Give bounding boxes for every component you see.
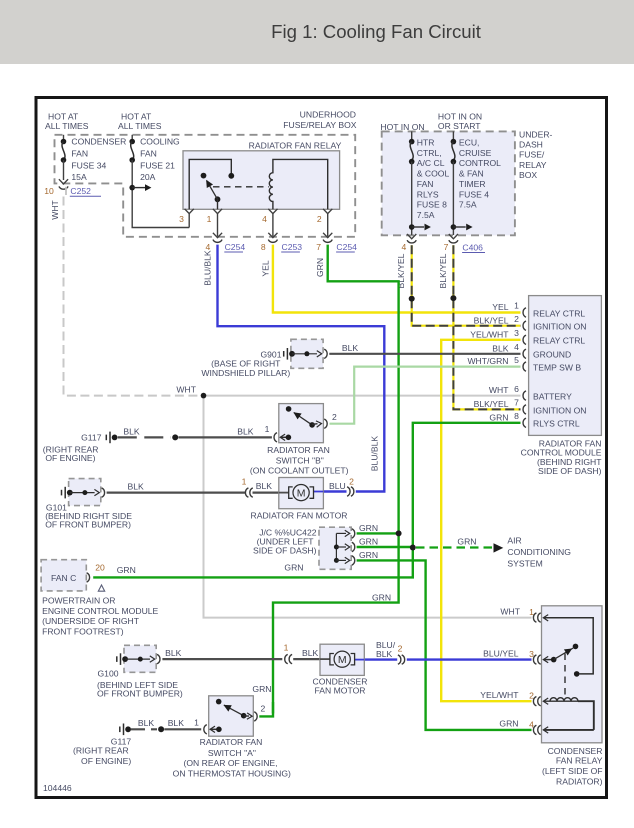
svg-text:4: 4 [206, 242, 211, 252]
module pin 7 connector [523, 405, 526, 414]
wire GRN J/C row 2 to junction on module-pin-8 green [357, 546, 413, 548]
svg-text:GRN: GRN [359, 550, 378, 560]
svg-text:BLK/YEL: BLK/YEL [474, 315, 509, 325]
svg-text:BLK: BLK [492, 343, 509, 353]
title bar [0, 0, 634, 64]
svg-text:C253: C253 [282, 242, 303, 252]
under-dash fuse/relay box [382, 131, 515, 235]
motor M1 box [279, 478, 324, 509]
switch A pin 1 arrow and dot [210, 726, 215, 732]
svg-text:SYSTEM: SYSTEM [507, 559, 542, 569]
wire GRN J/C row 1 to junction on relay-pin-2 green [357, 532, 399, 534]
svg-text:(UNDERSIDE OF RIGHT: (UNDERSIDE OF RIGHT [42, 616, 140, 626]
svg-text:TEMP SW B: TEMP SW B [533, 363, 581, 373]
svg-text:POWERTRAIN OR: POWERTRAIN OR [42, 595, 115, 605]
svg-text:(ON REAR OF ENGINE,: (ON REAR OF ENGINE, [183, 758, 277, 768]
svg-text:YEL/WHT: YEL/WHT [480, 690, 519, 700]
svg-text:10: 10 [44, 186, 54, 196]
module pin 1 connector [523, 308, 526, 317]
svg-text:BLK: BLK [165, 648, 182, 658]
switch B pin 1 arrow and dot [280, 434, 285, 440]
connector C254 pin 4 [213, 240, 222, 243]
relay pin 4 connector pair [533, 725, 536, 734]
switch B pivot dot pin 2 [309, 422, 315, 428]
ground G117 (upper) [43, 432, 118, 463]
svg-text:CTRL,: CTRL, [417, 148, 442, 158]
switch B pin 2 connector [324, 419, 327, 428]
svg-text:G100: G100 [98, 669, 119, 679]
svg-text:CRUISE: CRUISE [459, 148, 492, 158]
ground G101 [45, 479, 132, 530]
J/C internal bus [335, 533, 337, 560]
svg-text:CONDITIONING: CONDITIONING [507, 547, 571, 557]
svg-text:GRN: GRN [457, 537, 476, 547]
wire WHT junction down to condenser fan relay pin 1 [204, 396, 532, 618]
switch B pin 1 connector [274, 433, 277, 442]
relay mechanical link (dashed) [213, 186, 269, 188]
switch A arm with arrowhead [224, 705, 244, 716]
svg-text:FUSE/RELAY BOX: FUSE/RELAY BOX [283, 120, 356, 130]
relay pin 3 arrow and stub dot [543, 656, 548, 662]
module pin 3 connector [523, 335, 526, 344]
svg-text:RELAY: RELAY [519, 160, 547, 170]
relay U1 box [183, 151, 340, 210]
relay pin 1 connector pair [533, 613, 536, 622]
condenser motor M2 box [320, 644, 364, 675]
wire BLK/YEL fuse 8 black dash overlay [412, 245, 521, 326]
svg-text:GRN: GRN [359, 523, 378, 533]
motor M1 brackets [289, 487, 293, 498]
connector C406 pin 4 [407, 240, 416, 243]
svg-text:RADIATOR FAN MOTOR: RADIATOR FAN MOTOR [251, 511, 348, 521]
svg-text:& FAN: & FAN [459, 168, 484, 178]
svg-text:BLK/YEL: BLK/YEL [438, 253, 448, 288]
module pin 4 connector [523, 349, 526, 358]
switch B arm with arrowhead [294, 413, 312, 425]
switch B contact dot upper-left [286, 406, 292, 412]
svg-text:FAN: FAN [140, 149, 157, 159]
connector pair at radiator fan motor pin 2 [347, 487, 350, 496]
svg-text:2: 2 [261, 704, 266, 714]
svg-text:4: 4 [514, 342, 519, 352]
switch B pin 2 exit arrow [312, 423, 317, 426]
node splice on fuse 8 wire [409, 296, 415, 302]
wire GRN dashed branch to air conditioning system [416, 546, 493, 548]
svg-text:FRONT FOOTREST): FRONT FOOTREST) [42, 627, 124, 637]
svg-text:AIR: AIR [507, 536, 521, 546]
svg-text:C406: C406 [462, 242, 483, 252]
svg-text:YEL/WHT: YEL/WHT [470, 329, 509, 339]
switch A box [209, 696, 254, 736]
wire BLK G117 to radiator fan switch A pin 1 [131, 728, 157, 730]
svg-text:1: 1 [284, 643, 289, 653]
switch A pivot dot pin 2 [241, 713, 247, 719]
wire BLU/BLK from C254-4 to radiator fan motor pin 2 [218, 245, 385, 492]
condenser motor brackets [330, 654, 334, 665]
module U2 box [529, 296, 602, 436]
wire BLK G901 to module pin 4 GROUND [329, 353, 520, 355]
svg-text:BLK: BLK [302, 648, 319, 658]
svg-text:GRN: GRN [489, 412, 508, 422]
wire fuse 21 output to relay pin 3 [132, 160, 189, 228]
relay fixed contact wiring from pin 3 [189, 159, 231, 209]
svg-text:2: 2 [398, 644, 403, 654]
svg-text:BLU: BLU [329, 481, 346, 491]
condenser fan fuse 34 15A [59, 135, 126, 184]
connector C252 pin 10 [44, 186, 101, 197]
svg-text:RADIATOR FAN: RADIATOR FAN [200, 737, 263, 747]
node junction J/C row1 [396, 530, 402, 536]
wire BLK/YEL fuse 4 to module pin 7 IGNITION ON (yellow base) [453, 245, 520, 409]
svg-text:Fig 1: Cooling Fan Circuit: Fig 1: Cooling Fan Circuit [271, 21, 482, 42]
svg-text:3: 3 [179, 214, 184, 224]
relay mechanical link (dashed) [564, 654, 566, 699]
svg-text:GRN: GRN [315, 258, 325, 277]
svg-text:BATTERY: BATTERY [533, 392, 572, 402]
svg-text:UNDERHOOD: UNDERHOOD [300, 110, 356, 120]
svg-text:(ON COOLANT OUTLET): (ON COOLANT OUTLET) [250, 466, 349, 476]
condenser motor interior leads [320, 658, 330, 660]
svg-text:BLK: BLK [168, 718, 185, 728]
svg-text:7: 7 [316, 242, 321, 252]
wire GRN switch A pin 2 stub [259, 702, 273, 716]
svg-text:FAN RELAY: FAN RELAY [556, 755, 603, 765]
svg-text:WHT: WHT [176, 385, 196, 395]
switch A pin 2 connector [254, 712, 257, 721]
svg-text:C252: C252 [70, 186, 91, 196]
svg-text:BLK: BLK [256, 481, 273, 491]
svg-text:RADIATOR FAN RELAY: RADIATOR FAN RELAY [249, 140, 342, 150]
relay pin 3 connector pair [533, 655, 536, 664]
wire BLK/YEL fuse 8 to module pin 2 IGNITION ON (yellow base) [412, 245, 521, 326]
svg-text:UNDER-: UNDER- [519, 129, 553, 139]
svg-text:OF ENGINE): OF ENGINE) [81, 756, 131, 766]
svg-text:C254: C254 [225, 242, 246, 252]
connector C406 pin 7 [449, 240, 458, 243]
svg-text:7: 7 [514, 398, 519, 408]
svg-text:C254: C254 [336, 242, 357, 252]
wire BLU/YEL condenser fan motor pin 2 to condenser fan relay pin 3 [364, 658, 397, 660]
svg-text:FAN: FAN [417, 179, 434, 189]
wire YEL/WHT module pin 3 RELAY CTRL to condenser fan relay pin 2 [441, 340, 531, 701]
svg-text:IGNITION ON: IGNITION ON [533, 322, 586, 332]
J/C box [319, 527, 351, 569]
svg-text:FAN C: FAN C [51, 573, 76, 583]
relay pin 4 arrow and internal line [543, 727, 548, 733]
svg-text:1: 1 [207, 214, 212, 224]
svg-text:1: 1 [265, 424, 270, 434]
svg-text:(RIGHT REAR: (RIGHT REAR [73, 746, 129, 756]
node WHT junction [201, 393, 207, 399]
wire WHT/GRN radiator fan switch B pin 2 to module pin 5 TEMP SW B [330, 367, 521, 424]
svg-text:M: M [297, 487, 306, 499]
svg-text:WHT: WHT [50, 199, 60, 219]
svg-text:ALL TIMES: ALL TIMES [45, 121, 89, 131]
svg-text:5: 5 [514, 355, 519, 365]
svg-text:BLU/BLK: BLU/BLK [370, 436, 380, 472]
ECU, CRUISE CONTROL &amp; FAN TIMER FUSE 4 7.5A [451, 131, 502, 235]
relay pin stubs down to underhood box edge [217, 214, 219, 237]
module pin 6 connector [523, 391, 526, 400]
connector pair at condenser fan motor pin 1 [285, 654, 288, 663]
wire BLK G101 to radiator fan motor pin 1 [107, 492, 245, 494]
switch A pin 1 connector [204, 725, 207, 734]
wire GRN module pin 8 RLYS CTRL down to J/C row2 and FAN C pin 20 [93, 423, 520, 578]
svg-text:GRN: GRN [372, 592, 391, 602]
relay pin chevrons at box bottom [185, 209, 194, 214]
svg-text:SWITCH "A": SWITCH "A" [208, 748, 256, 758]
switch B box [279, 404, 324, 443]
svg-text:WHT: WHT [500, 606, 520, 616]
svg-text:OF ENGINE): OF ENGINE) [45, 453, 95, 463]
cooling fan fuse 21 20A [129, 135, 180, 182]
wire WHT junction to module pin 6 BATTERY [204, 395, 521, 397]
svg-text:RELAY CTRL: RELAY CTRL [533, 336, 585, 346]
svg-text:& COOL: & COOL [417, 168, 450, 178]
svg-text:ECU,: ECU, [459, 138, 480, 148]
arrow to air conditioning system [494, 543, 504, 552]
svg-text:1: 1 [529, 607, 534, 617]
connector C253 pin 8 [268, 240, 277, 243]
svg-text:HOT AT: HOT AT [121, 112, 152, 122]
node splice on fuse 4 wire [450, 295, 456, 301]
wire BLU radiator fan motor pin 2 stub [324, 490, 347, 492]
relay switch arm with arrowhead [554, 648, 574, 660]
svg-text:GRN: GRN [284, 562, 303, 572]
svg-text:7.5A: 7.5A [459, 200, 477, 210]
svg-text:FUSE/: FUSE/ [519, 149, 545, 159]
svg-text:GRN: GRN [117, 565, 136, 575]
svg-text:HOT AT: HOT AT [48, 112, 79, 122]
svg-text:3: 3 [529, 649, 534, 659]
svg-text:8: 8 [261, 242, 266, 252]
svg-text:2: 2 [529, 691, 534, 701]
svg-text:RELAY CTRL: RELAY CTRL [533, 308, 585, 318]
svg-text:SIDE OF DASH): SIDE OF DASH) [538, 466, 602, 476]
svg-text:FUSE 4: FUSE 4 [459, 189, 489, 199]
svg-text:BLK: BLK [138, 718, 155, 728]
ground G100 [97, 645, 183, 698]
relay coil between pins 4 and 2 [269, 159, 327, 209]
svg-text:RLYS: RLYS [417, 189, 439, 199]
svg-text:TIMER: TIMER [459, 179, 486, 189]
triangle symbol A [98, 585, 104, 591]
svg-text:BLK/YEL: BLK/YEL [474, 399, 509, 409]
svg-text:GRN: GRN [252, 684, 271, 694]
svg-text:RLYS CTRL: RLYS CTRL [533, 419, 580, 429]
svg-text:2: 2 [317, 214, 322, 224]
relay switch arm (pin 1) [215, 196, 221, 202]
chevrons crossing under-dash box bottom [407, 234, 416, 239]
svg-text:ALL TIMES: ALL TIMES [118, 121, 162, 131]
svg-text:7.5A: 7.5A [417, 210, 435, 220]
svg-text:BLU/YEL: BLU/YEL [483, 648, 519, 658]
J/C row 1 arrow [336, 532, 346, 534]
connector pair at radiator fan motor pin 1 [245, 488, 248, 497]
relay pin 2 arrow and coil [543, 698, 548, 704]
svg-text:3: 3 [514, 328, 519, 338]
svg-text:6: 6 [514, 384, 519, 394]
wire BLK G117 to radiator fan switch B pin 1 (dashed then solid) [118, 436, 171, 438]
svg-text:IGNITION ON: IGNITION ON [533, 405, 586, 415]
svg-text:OF FRONT BUMPER): OF FRONT BUMPER) [45, 519, 131, 529]
svg-text:RADIATOR): RADIATOR) [556, 776, 603, 786]
svg-text:OR START: OR START [438, 121, 481, 131]
svg-text:RADIATOR FAN: RADIATOR FAN [267, 445, 330, 455]
underhood fuse/relay box outline [55, 135, 356, 237]
wire BLK/YEL fuse 4 black dash overlay [453, 245, 520, 409]
svg-text:BLK: BLK [376, 649, 393, 659]
ground G117 lower [73, 724, 131, 767]
svg-text:BOX: BOX [519, 170, 537, 180]
switch A pin 2 exit arrow [244, 715, 249, 717]
svg-text:1: 1 [242, 476, 247, 486]
relay pin 2 connector pair [533, 697, 536, 706]
motor M1 circle with M [293, 485, 309, 501]
svg-text:1: 1 [194, 717, 199, 727]
svg-text:CONTROL: CONTROL [459, 158, 501, 168]
svg-text:FAN: FAN [71, 149, 88, 159]
svg-text:SWITCH "B": SWITCH "B" [276, 456, 324, 466]
svg-text:WINDSHIELD PILLAR): WINDSHIELD PILLAR) [201, 368, 290, 378]
svg-text:M: M [338, 654, 347, 666]
svg-text:ON THERMOSTAT HOUSING): ON THERMOSTAT HOUSING) [173, 768, 291, 778]
svg-text:YEL: YEL [260, 260, 270, 276]
FAN C box (powertrain control module output) [41, 560, 86, 591]
svg-text:4: 4 [402, 242, 407, 252]
svg-text:GRN: GRN [359, 536, 378, 546]
svg-text:BLK: BLK [128, 481, 145, 491]
svg-text:ENGINE CONTROL MODULE: ENGINE CONTROL MODULE [42, 606, 158, 616]
wire WHT from C252-10 down and right to junction (dashed) [64, 197, 201, 396]
module pin 8 connector [523, 418, 526, 427]
svg-text:OF FRONT BUMPER): OF FRONT BUMPER) [97, 688, 183, 698]
svg-text:1: 1 [514, 301, 519, 311]
motor M1 interior leads [279, 492, 289, 494]
svg-text:FUSE 34: FUSE 34 [71, 161, 106, 171]
svg-text:A/C CL: A/C CL [417, 158, 445, 168]
svg-text:4: 4 [262, 214, 267, 224]
svg-text:WHT/GRN: WHT/GRN [467, 356, 508, 366]
svg-text:BLK: BLK [342, 343, 359, 353]
svg-text:15A: 15A [71, 172, 87, 182]
svg-text:8: 8 [514, 411, 519, 421]
J/C row 3 arrow [334, 558, 339, 563]
svg-text:2: 2 [514, 314, 519, 324]
svg-text:SIDE OF DASH): SIDE OF DASH) [253, 545, 317, 555]
svg-text:20A: 20A [140, 172, 156, 182]
HTR CTRL, A/C CL &amp; COOL FAN RLYS FUSE 8 7.5A [409, 131, 450, 235]
svg-text:7: 7 [444, 242, 449, 252]
svg-text:4: 4 [529, 719, 534, 729]
svg-text:104446: 104446 [43, 783, 72, 793]
wire GRN from C254-7 down to J/C and radiator fan switch A pin 2 [273, 245, 399, 714]
switch A contact dot upper-left [216, 699, 222, 705]
diagram frame [36, 98, 607, 798]
svg-text:YEL: YEL [492, 302, 508, 312]
FAN C pin 20 connector pair [87, 573, 90, 582]
svg-text:GRN: GRN [499, 719, 518, 729]
node junction J/C row2 [410, 545, 416, 551]
J/C row 2 arrow [334, 545, 339, 550]
junction dot and branch arrow on fuse 21 wire [129, 185, 135, 191]
svg-text:FAN MOTOR: FAN MOTOR [315, 686, 366, 696]
module pin 2 connector [523, 321, 526, 330]
ground G901 [201, 339, 358, 378]
svg-text:G117: G117 [81, 432, 102, 442]
wire BLK G100 to condenser fan motor pin 1 [162, 658, 282, 660]
svg-text:FUSE 21: FUSE 21 [140, 161, 175, 171]
svg-text:COOLING: COOLING [140, 137, 180, 147]
condenser fan relay box [542, 606, 603, 743]
chevrons crossing underhood box bottom [213, 233, 222, 238]
svg-text:2: 2 [332, 412, 337, 422]
svg-text:WHT: WHT [489, 385, 509, 395]
wire YEL from C253-8 to module pin 1 RELAY CTRL [273, 245, 521, 313]
svg-text:(LEFT SIDE OF: (LEFT SIDE OF [542, 766, 602, 776]
svg-text:CONDENSER: CONDENSER [71, 137, 126, 147]
svg-text:2: 2 [349, 476, 354, 486]
connector C254 pin 7 [323, 240, 332, 243]
svg-text:20: 20 [95, 562, 105, 572]
svg-text:BLK: BLK [123, 426, 140, 436]
module pin 5 connector [523, 362, 526, 371]
svg-text:FUSE 8: FUSE 8 [417, 200, 447, 210]
wire GRN J/C row 3 to condenser fan relay pin 4 [357, 560, 532, 730]
svg-text:BLU/BLK: BLU/BLK [203, 250, 213, 286]
svg-text:BLK: BLK [237, 426, 254, 436]
relay pin 1 arrow and internal path to contact [543, 615, 548, 621]
svg-text:HTR: HTR [417, 138, 435, 148]
svg-text:GROUND: GROUND [533, 350, 571, 360]
condenser motor circle with M [334, 651, 350, 667]
svg-text:DASH: DASH [519, 139, 543, 149]
